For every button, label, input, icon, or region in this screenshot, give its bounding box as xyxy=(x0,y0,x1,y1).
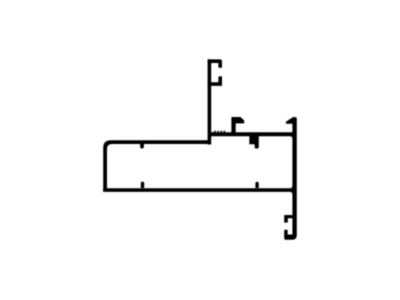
fillet bottom-wall/bar top side xyxy=(290,185,293,188)
top C-channel upper bar with down-lip xyxy=(208,59,222,67)
glazing flange riser + right flange with chamfer xyxy=(231,117,244,133)
gasket tooth hanging below right top wall xyxy=(249,136,258,149)
bottom wall tick right xyxy=(255,182,258,188)
fillet stem/left-wall left side xyxy=(205,140,208,143)
bottom wall xyxy=(103,188,295,192)
bottom channel upper hook with down-lip xyxy=(284,215,292,223)
stem (vertical web from top channel down to body) xyxy=(208,59,212,144)
top wall inner tick xyxy=(140,144,144,149)
plateau / right-section top wall xyxy=(209,132,295,136)
right bar: arrow head top, shaft, bottom foot with up-lip, rounded bottom xyxy=(284,117,297,240)
body left wall + rounded top-left corner + left top wall xyxy=(103,140,209,191)
bottom wall tick left xyxy=(141,182,144,188)
fillet stem/plateau right side xyxy=(211,132,214,135)
serration teeth on plateau xyxy=(214,131,225,133)
top C-channel lower bar with up-lip xyxy=(208,76,222,86)
fillet bottom-wall/bar under side xyxy=(290,192,293,195)
fillet plateau/bar inner corner xyxy=(290,136,293,139)
